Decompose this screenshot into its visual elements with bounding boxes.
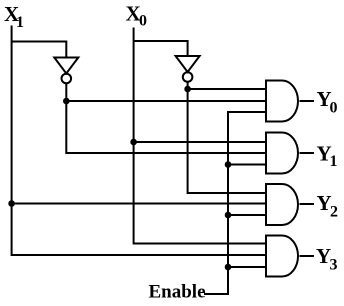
wire Enable to Y3 bottom input [228,266,266,268]
label Y2 [317,191,339,221]
inverter U2 bubble [183,72,193,82]
inverter U2 (X0) triangle [176,56,200,72]
junction dot Enable/Y2 [225,212,232,219]
inverter U1 bubble [62,74,72,84]
wire X1 to Y2 middle input [12,203,266,205]
junction dot Enable/Y1 [225,161,232,168]
junction dot X1'/Y0 [63,98,70,105]
label X0 [126,2,148,30]
AND gate Y2 [266,184,298,225]
label Y1 [317,142,338,171]
svg-text:0: 0 [139,13,147,30]
inverter U1 (X1) triangle [54,58,78,74]
label Y3 [316,244,338,274]
svg-text:0: 0 [330,100,338,117]
wire Y1 output stub [300,152,315,154]
wire Enable to Y2 bottom input [228,214,266,216]
wire X0' inverter output down to Y2 top input [188,82,266,193]
junction dot Enable/Y3 [225,264,232,271]
wire Y3 output stub [300,255,315,257]
svg-text:3: 3 [330,257,338,274]
svg-text:Enable: Enable [149,282,206,303]
junction dot X1/Y2 [8,200,15,207]
svg-text:1: 1 [330,153,338,170]
junction dot X0/Y1 [130,139,137,146]
wire Y2 output stub [300,203,315,205]
AND gate Y1 [266,133,298,174]
junction dot X0'/Y0 [184,86,191,93]
wire X0 branch to inverter U2 input [134,41,188,56]
label X1 [4,2,24,31]
wire X1' to Y0 middle input [66,100,266,102]
wire Enable to Y1 bottom input [228,164,266,166]
wire X0' to Y0 top input [188,88,266,90]
AND gate Y0 [266,81,298,122]
svg-text:2: 2 [330,204,338,221]
label Y0 [317,87,338,117]
wire X1 vertical from label down to Y3 middle input [12,26,266,256]
wire X0 to Y1 top input [134,141,266,143]
wire Y0 output stub [300,100,315,102]
wire X1' inverter output down to Y1 middle input [66,84,266,154]
wire X1 branch to inverter U1 input [12,42,67,58]
wire X0 vertical from label down to Y3 top input [134,28,266,244]
AND gate Y3 [266,236,298,277]
svg-text:1: 1 [16,14,24,31]
wire Enable from label up the bus to Y0 bottom input [204,112,266,294]
